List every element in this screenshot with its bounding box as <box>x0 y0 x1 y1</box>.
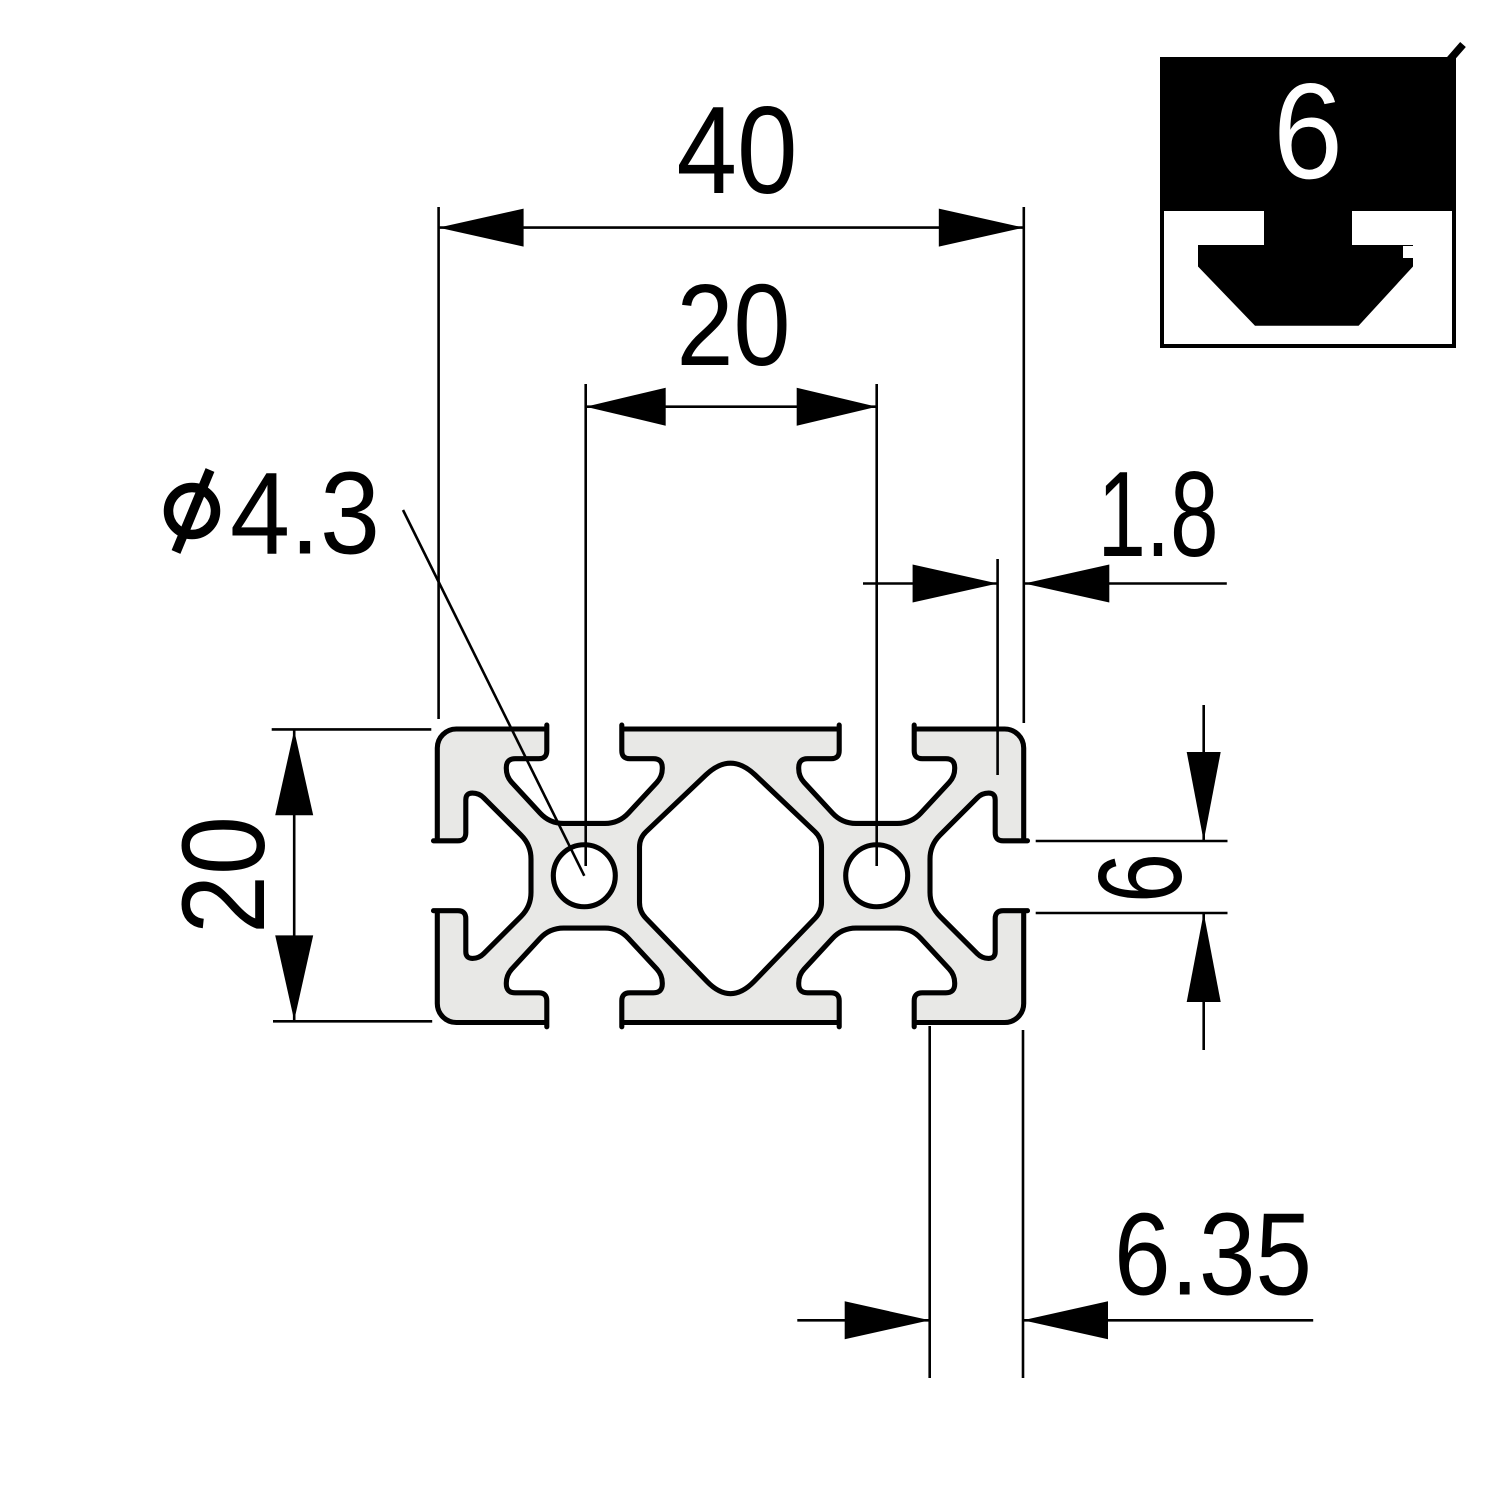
svg-text:6.35: 6.35 <box>1114 1189 1312 1320</box>
dim 20 left: arrow down <box>275 935 313 1020</box>
dim 6: dimension line top part w/ arrow <box>1202 705 1205 841</box>
dim 1.8: dimension line right part w/ arrow <box>1024 582 1227 585</box>
dim 20 top: extension/center lines <box>584 384 587 866</box>
central cavity <box>640 763 822 993</box>
dim 20 left: arrow up <box>275 730 313 815</box>
dim 40: extension lines <box>437 207 440 719</box>
dim 6: extension lines <box>1036 840 1228 843</box>
dim 20 top: dimension line <box>586 405 877 408</box>
dim 20 left: extension lines <box>272 728 432 731</box>
T-slot top-left <box>506 725 662 823</box>
dia 4.3: diameter symbol <box>169 488 216 535</box>
svg-text:4.3: 4.3 <box>230 448 380 579</box>
dim 6.35: extension lines <box>928 1026 931 1378</box>
dim 40: dimension line <box>439 226 1024 229</box>
T-slot bottom-left <box>506 928 662 1027</box>
dim 1.8: dimension line left part w/ arrow <box>863 582 998 585</box>
svg-text:6: 6 <box>1074 853 1207 903</box>
logo: fold mark <box>1450 45 1464 61</box>
dim 20 top: arrow left <box>586 388 666 426</box>
dim 6: arrow up to slot bottom <box>1187 913 1221 1002</box>
logo: black box <box>1160 57 1456 348</box>
logo: black tenon stem <box>1264 205 1352 246</box>
T-slot right end <box>930 793 1028 958</box>
dim 1.8: extension lines <box>996 559 999 775</box>
dim 20 left: dimension line <box>293 730 296 1020</box>
core hole left <box>553 845 615 907</box>
dim 6: dimension line bottom part w/ arrow <box>1202 913 1205 1050</box>
svg-text:20: 20 <box>158 816 290 934</box>
dim 40: arrow left <box>439 209 524 247</box>
dim 40: arrow right <box>939 209 1024 247</box>
profile body 40x20 <box>437 729 1023 1023</box>
dim 6.35: dimension line right part w/ arrow <box>1023 1319 1313 1322</box>
T-slot bottom-right <box>799 928 955 1027</box>
T-slot left end <box>434 793 532 958</box>
logo: black tenon head <box>1198 245 1413 326</box>
dia 4.3: leader line <box>403 510 584 876</box>
T-slot top-right <box>799 725 955 823</box>
svg-text:20: 20 <box>677 260 791 390</box>
svg-text:6: 6 <box>1273 55 1343 207</box>
logo: head notch <box>1403 246 1414 258</box>
dim 1.8: arrow left (pointing right) <box>913 565 998 603</box>
dim 6.35: dimension line left part w/ arrow <box>797 1319 929 1322</box>
dim 6: arrow down to slot top <box>1187 752 1221 841</box>
svg-text:1.8: 1.8 <box>1098 446 1219 582</box>
core hole right <box>846 845 908 907</box>
dim 20 top: arrow right <box>797 388 877 426</box>
dim 6.35: arrow right (pointing left) <box>1023 1301 1108 1339</box>
dim 1.8: arrow right (pointing left) <box>1024 565 1109 603</box>
logo: white groove area <box>1164 211 1452 344</box>
dim 6.35: arrow left (pointing right) <box>845 1301 930 1339</box>
svg-text:40: 40 <box>677 82 798 220</box>
